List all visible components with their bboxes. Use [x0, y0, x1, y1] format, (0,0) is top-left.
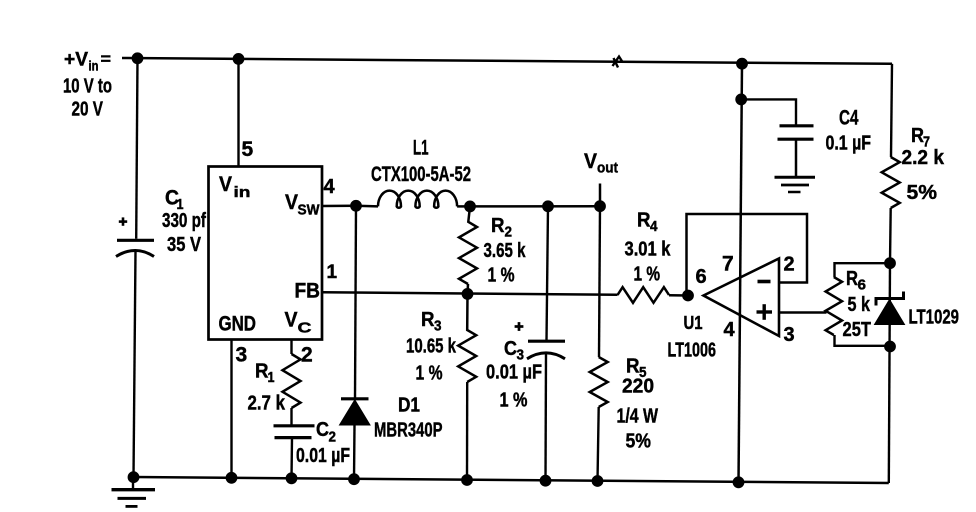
junction reference bottom node: [885, 341, 896, 352]
label R3 10.65 k 1 %: [406, 309, 457, 385]
svg-text:220: 220: [622, 376, 654, 398]
junction input node: [132, 53, 143, 64]
svg-text:20 V: 20 V: [72, 99, 104, 121]
wire pin 5 drop: [237, 59, 239, 167]
svg-text:GND: GND: [219, 313, 257, 336]
junction reference top node: [885, 258, 896, 269]
IC U regulator box: [209, 167, 323, 340]
junction C4 tee: [736, 94, 747, 105]
svg-text:1 %: 1 %: [500, 390, 528, 412]
svg-text:U1: U1: [684, 313, 703, 333]
diode D1: [340, 399, 371, 425]
wire R2 to FB node: [466, 284, 469, 294]
svg-text:3.01 k: 3.01 k: [625, 239, 672, 261]
wire R6 bracket bottom: [835, 335, 891, 346]
ground symbol main: [112, 477, 156, 506]
label L1 CTX100-5A-52: [371, 137, 471, 187]
junction VSW node: [351, 200, 362, 211]
svg-text:4: 4: [724, 319, 736, 341]
pin 3 label: [236, 344, 248, 367]
label C3 0.01 uF 1 %: [486, 338, 542, 412]
svg-text:1 %: 1 %: [416, 363, 443, 385]
wire R6 bracket top: [835, 263, 891, 277]
junction top rail supply drop: [737, 58, 748, 69]
op-amp U1 triangle: [704, 259, 780, 337]
capacitor C3: [527, 341, 565, 359]
wire GND pin 3 drop: [230, 340, 232, 479]
svg-text:in: in: [234, 184, 251, 201]
wire top +Vin rail: [122, 58, 892, 64]
C1 plus sign: [119, 217, 127, 225]
label +Vin = 10 V to 20 V: [63, 50, 112, 121]
svg-text:6: 6: [858, 277, 867, 294]
junction ground R3: [462, 475, 473, 486]
capacitor C1: [116, 240, 154, 256]
wire R4 to op-amp: [669, 294, 688, 297]
resistor R4: [618, 287, 670, 303]
svg-text:330 pf: 330 pf: [162, 210, 206, 232]
svg-text:V: V: [584, 150, 597, 173]
svg-text:0.1 µF: 0.1 µF: [826, 133, 872, 155]
wire C1 branch upper: [136, 58, 137, 239]
junction ground C3: [540, 475, 551, 486]
ground symbol at C4: [775, 177, 816, 192]
svg-text:5: 5: [242, 138, 254, 161]
wire R7 to reference node: [889, 208, 892, 263]
svg-text:2: 2: [784, 254, 795, 276]
label R5 220 1/4 W 5%: [617, 356, 659, 453]
svg-text:R: R: [626, 356, 640, 378]
wire op-amp plus input: [779, 311, 827, 314]
wire VC pin stub: [290, 340, 292, 355]
junction ground R5: [592, 476, 603, 487]
svg-text:0.01 µF: 0.01 µF: [296, 445, 350, 467]
wire supply vertical: [739, 64, 743, 483]
svg-text:R: R: [637, 210, 651, 232]
svg-text:3.65 k: 3.65 k: [484, 240, 527, 262]
svg-text:25T: 25T: [843, 319, 872, 341]
wire VSW to node: [322, 205, 356, 208]
IC label VC: [285, 309, 312, 337]
svg-text:4: 4: [650, 218, 658, 235]
svg-text:+V: +V: [64, 50, 88, 71]
label R7 2.2 k 5%: [902, 125, 945, 204]
junction FB divider node: [462, 289, 473, 300]
svg-text:10 V to: 10 V to: [63, 76, 112, 98]
wire C3 to ground: [544, 353, 547, 482]
op-amp plus sign: [757, 304, 773, 320]
wire C4 to ground symbol: [795, 139, 798, 177]
wire FB line: [322, 292, 618, 295]
pin 6 label: [696, 266, 707, 288]
svg-text:0.01 µF: 0.01 µF: [486, 362, 542, 384]
svg-text:10.65 k: 10.65 k: [406, 336, 457, 358]
wire feedback loop pin6 to pin2: [687, 214, 808, 296]
svg-text:C: C: [316, 419, 329, 441]
resistor R5: [590, 357, 608, 407]
label C2 0.01 uF: [296, 419, 350, 467]
svg-text:V: V: [285, 309, 298, 332]
pin 5 label: [242, 138, 254, 161]
svg-text:MBR340P: MBR340P: [374, 420, 443, 442]
svg-text:in: in: [89, 59, 99, 74]
wire C1 to ground: [134, 251, 136, 477]
svg-text:2: 2: [505, 224, 513, 241]
svg-text:7: 7: [722, 253, 734, 276]
junction Vout node: [595, 201, 606, 212]
svg-text:5 k: 5 k: [848, 294, 871, 316]
wire top rail corner to R7: [891, 64, 892, 157]
junction ground op-amp supply: [733, 477, 744, 488]
svg-text:1 %: 1 %: [488, 265, 515, 287]
svg-text:4: 4: [324, 176, 336, 198]
IC label VSW: [285, 191, 320, 219]
svg-text:D1: D1: [398, 395, 420, 417]
label D1 MBR340P: [374, 395, 443, 442]
svg-text:=: =: [101, 50, 112, 69]
capacitor C2: [274, 426, 315, 438]
svg-text:5%: 5%: [626, 431, 652, 453]
artifact mark on rail: [613, 57, 623, 68]
wire C4 tee: [741, 99, 796, 125]
svg-text:C4: C4: [839, 107, 859, 130]
resistor R1: [283, 354, 301, 408]
resistor R3: [458, 294, 476, 382]
svg-text:L1: L1: [413, 137, 429, 160]
svg-text:V: V: [285, 191, 298, 214]
svg-text:out: out: [597, 160, 618, 177]
junction inductor output: [465, 201, 476, 212]
svg-text:6: 6: [696, 266, 707, 288]
pin 4 label: [324, 176, 336, 198]
label U1 LT1006: [668, 313, 717, 362]
capacitor C4: [778, 126, 814, 139]
svg-text:LT1029: LT1029: [909, 307, 960, 329]
wire ground rail: [134, 477, 889, 483]
svg-text:1/4 W: 1/4 W: [617, 406, 659, 428]
svg-text:2: 2: [301, 344, 313, 367]
wire Vout stub: [599, 184, 602, 207]
label C1 330 pf 35 V: [162, 187, 206, 257]
svg-text:V: V: [219, 173, 232, 196]
op-amp minus sign: [758, 280, 771, 284]
label LT1029: [909, 307, 960, 329]
svg-text:1: 1: [327, 262, 338, 283]
wire output line: [470, 205, 600, 208]
wire D1 to ground: [353, 425, 356, 480]
wire R3 to ground: [466, 382, 469, 480]
svg-text:2: 2: [329, 429, 337, 446]
junction C3 top: [543, 201, 554, 212]
wire coil to output node: [457, 205, 470, 208]
IC label Vin: [219, 173, 251, 201]
junction top rail to pin 5: [233, 54, 244, 65]
svg-text:5%: 5%: [907, 182, 938, 204]
junction ground C2: [286, 473, 297, 484]
wire VSW node down to D1: [355, 206, 356, 399]
resistor R6 trimpot: [826, 277, 842, 335]
junction ground C1: [128, 472, 139, 483]
IC label FB: [295, 280, 321, 303]
svg-text:35 V: 35 V: [167, 234, 202, 256]
label R6 5 k 25T: [843, 268, 872, 341]
svg-text:R: R: [491, 215, 505, 237]
wire VSW node to coil: [356, 205, 378, 208]
svg-text:3: 3: [236, 344, 248, 367]
svg-text:2.2 k: 2.2 k: [902, 147, 945, 169]
zener reference LT1029: [875, 292, 905, 325]
wire C2 to ground: [290, 438, 293, 479]
svg-text:3: 3: [784, 324, 795, 346]
svg-text:C: C: [504, 338, 517, 360]
wire R5 to ground: [598, 407, 599, 482]
svg-text:C: C: [298, 320, 312, 337]
pin 2 label op-amp: [784, 254, 795, 276]
svg-text:1 %: 1 %: [634, 264, 661, 286]
svg-text:LT1006: LT1006: [668, 340, 717, 362]
pin 4 label op-amp: [724, 319, 736, 341]
pin 7 label: [722, 253, 734, 276]
label R2 3.65 k 1 %: [484, 215, 527, 287]
inductor L1: [378, 191, 457, 208]
resistor R7: [882, 157, 900, 208]
svg-text:2.7 k: 2.7 k: [248, 393, 286, 415]
label R4 3.01 k 1 %: [625, 210, 672, 286]
svg-text:1: 1: [268, 369, 275, 386]
label C4 0.1 uF: [826, 107, 872, 155]
pin 1 label: [327, 262, 338, 283]
junction ground pin3: [226, 472, 237, 483]
svg-text:3: 3: [434, 318, 442, 335]
wire Vout to R5: [599, 206, 600, 357]
junction ground D1: [349, 474, 360, 485]
svg-text:CTX100-5A-52: CTX100-5A-52: [371, 163, 471, 186]
wire reference vertical: [889, 263, 890, 483]
C3 plus sign: [515, 322, 524, 331]
IC label GND: [219, 313, 257, 336]
svg-text:R: R: [421, 309, 435, 331]
wire C3 branch upper: [547, 206, 549, 340]
svg-text:FB: FB: [295, 280, 321, 303]
junction op-amp output node: [683, 290, 694, 301]
svg-text:SW: SW: [298, 202, 321, 219]
label R1 2.7 k: [248, 361, 286, 415]
label Vout: [584, 150, 618, 177]
wire R1 to C2: [290, 408, 292, 425]
resistor R2: [459, 206, 477, 284]
pin 2 label: [301, 344, 313, 367]
pin 3 label op-amp: [784, 324, 795, 346]
